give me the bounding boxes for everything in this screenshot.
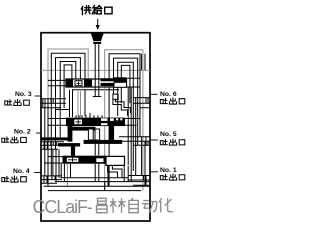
svg-text:No. 3: No. 3 bbox=[15, 91, 32, 98]
svg-text:CCLaiF-: CCLaiF- bbox=[33, 197, 93, 217]
svg-text:No. 2: No. 2 bbox=[14, 128, 31, 135]
svg-text:No. 6: No. 6 bbox=[160, 91, 177, 98]
svg-text:No. 4: No. 4 bbox=[13, 168, 30, 175]
svg-text:No. 1: No. 1 bbox=[160, 167, 177, 174]
svg-text:No. 5: No. 5 bbox=[160, 131, 177, 138]
